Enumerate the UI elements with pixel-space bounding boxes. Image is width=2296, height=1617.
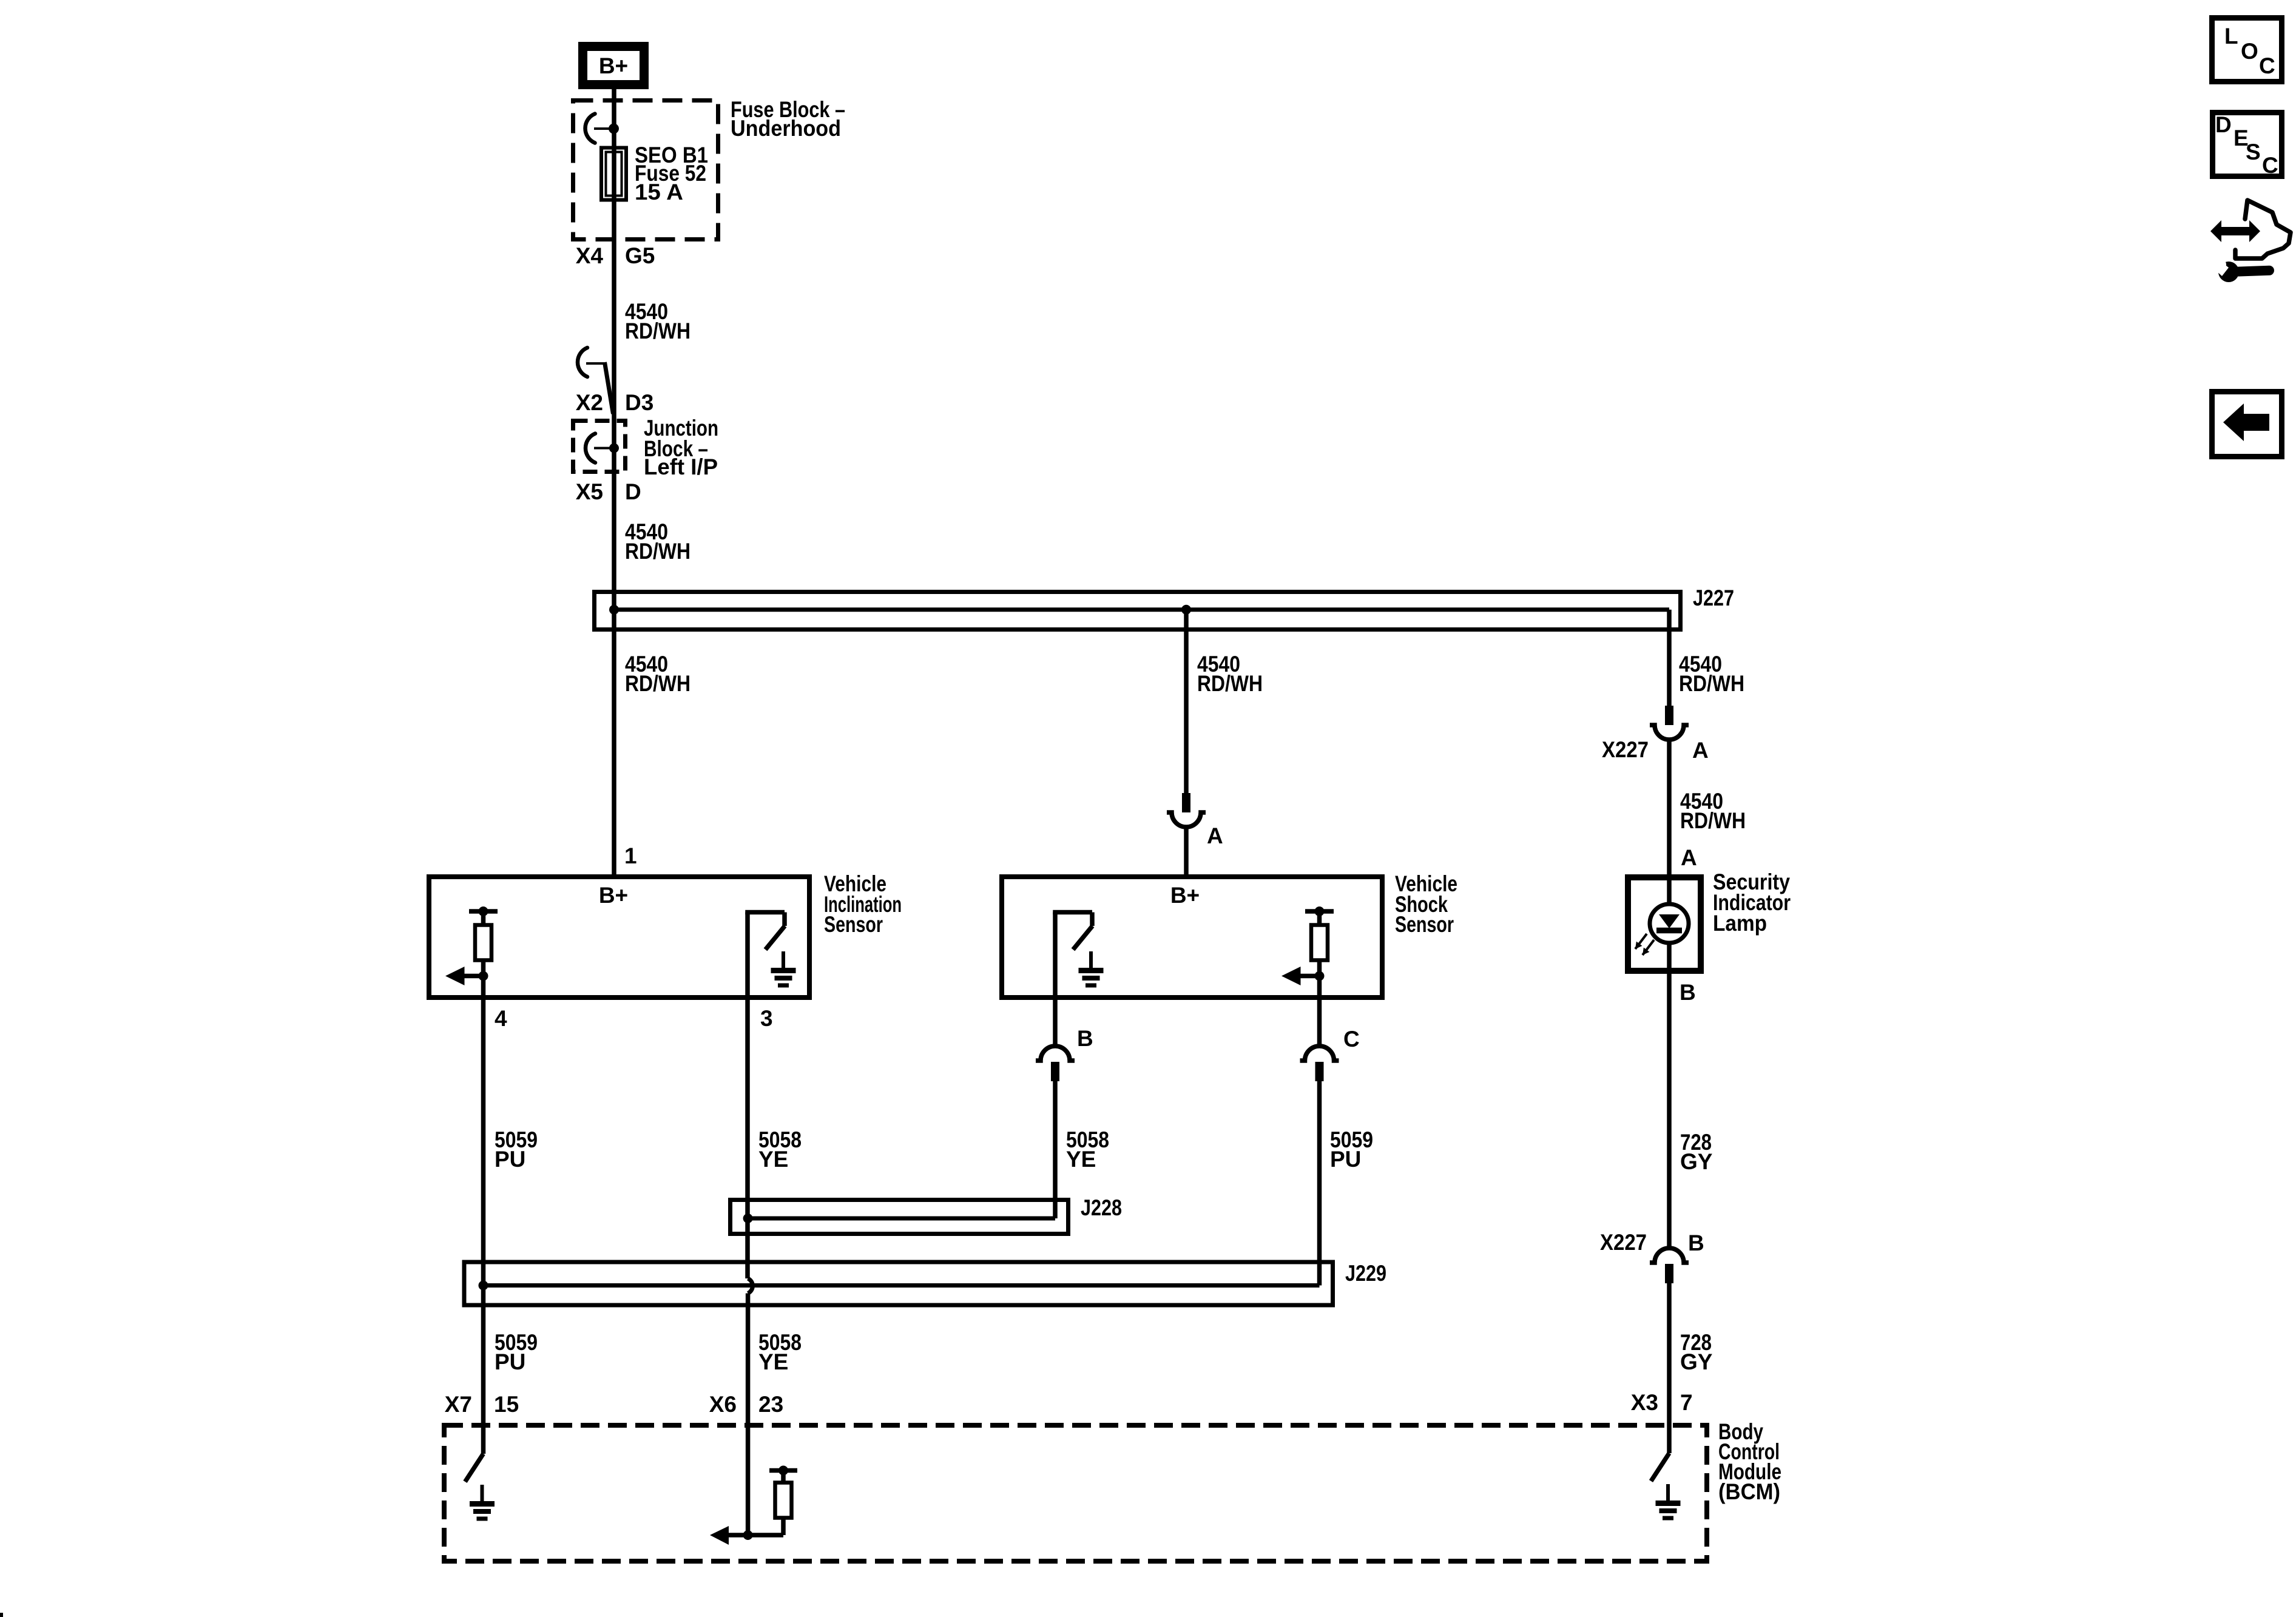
svg-text:RD/WH: RD/WH (1679, 671, 1744, 696)
svg-text:3: 3 (760, 1006, 773, 1031)
svg-text:J227: J227 (1693, 586, 1734, 610)
svg-text:X227: X227 (1602, 737, 1649, 762)
svg-text:4: 4 (495, 1006, 507, 1031)
svg-text:G5: G5 (625, 243, 655, 268)
svg-text:GY: GY (1680, 1149, 1713, 1174)
svg-text:RD/WH: RD/WH (1197, 671, 1263, 696)
svg-text:X3: X3 (1631, 1390, 1658, 1415)
svg-text:L: L (2224, 24, 2238, 49)
svg-text:YE: YE (758, 1349, 788, 1374)
svg-text:B: B (1077, 1026, 1093, 1051)
svg-text:O: O (2241, 39, 2258, 64)
svg-text:B+: B+ (599, 53, 628, 78)
svg-text:A: A (1692, 738, 1709, 763)
svg-text:X7: X7 (445, 1392, 472, 1417)
svg-text:C: C (1343, 1027, 1360, 1052)
svg-text:Sensor: Sensor (1395, 912, 1454, 937)
svg-text:15 A: 15 A (635, 180, 683, 204)
svg-text:J228: J228 (1081, 1195, 1122, 1220)
svg-text:YE: YE (1066, 1147, 1096, 1172)
svg-text:S: S (2246, 140, 2261, 164)
svg-text:X2: X2 (576, 390, 603, 415)
svg-text:7: 7 (1680, 1390, 1693, 1415)
svg-text:1: 1 (624, 843, 637, 868)
svg-text:B: B (1680, 980, 1696, 1005)
svg-text:15: 15 (494, 1392, 519, 1417)
svg-text:A: A (1207, 823, 1223, 848)
svg-text:23: 23 (758, 1392, 783, 1417)
svg-text:Sensor: Sensor (824, 912, 883, 937)
svg-text:X227: X227 (1600, 1230, 1647, 1255)
svg-text:C: C (2262, 153, 2278, 178)
svg-text:GY: GY (1680, 1349, 1713, 1374)
svg-text:Underhood: Underhood (731, 116, 841, 141)
svg-text:RD/WH: RD/WH (625, 671, 690, 696)
svg-text:D3: D3 (625, 390, 653, 415)
svg-text:YE: YE (758, 1147, 788, 1172)
svg-text:B+: B+ (1170, 883, 1200, 908)
svg-text:B: B (1688, 1230, 1704, 1255)
svg-text:PU: PU (495, 1349, 525, 1374)
svg-text:D: D (2215, 112, 2232, 137)
svg-text:D: D (625, 479, 641, 504)
svg-text:(BCM): (BCM) (1718, 1479, 1780, 1504)
svg-text:X5: X5 (576, 479, 603, 504)
svg-text:A: A (1681, 845, 1697, 870)
svg-text:Left I/P: Left I/P (644, 454, 718, 479)
svg-text:J229: J229 (1345, 1261, 1386, 1286)
svg-text:Lamp: Lamp (1713, 911, 1767, 936)
svg-text:RD/WH: RD/WH (625, 319, 690, 343)
svg-text:B+: B+ (599, 883, 628, 908)
svg-text:X4: X4 (576, 243, 604, 268)
svg-text:X6: X6 (709, 1392, 737, 1417)
svg-text:PU: PU (1330, 1147, 1361, 1172)
svg-text:RD/WH: RD/WH (1680, 808, 1746, 833)
svg-text:RD/WH: RD/WH (625, 539, 690, 564)
svg-text:C: C (2259, 53, 2275, 78)
svg-text:PU: PU (495, 1147, 525, 1172)
